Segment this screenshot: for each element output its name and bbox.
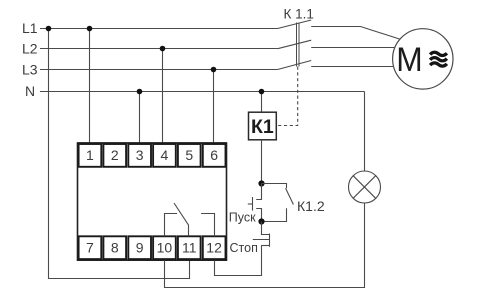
svg-text:К1: К1 bbox=[251, 116, 274, 138]
svg-text:L1: L1 bbox=[22, 20, 38, 36]
wire coil K1 to node A bbox=[261, 140, 263, 184]
contactor K1.1 pole 2 blade bbox=[278, 40, 312, 49]
wire terminal 12 riser inside box bbox=[201, 214, 214, 237]
terminal 6 bbox=[203, 144, 226, 167]
svg-text:N: N bbox=[25, 83, 35, 99]
wire K1.2 branch bottom bbox=[262, 208, 287, 221]
svg-text:4: 4 bbox=[161, 147, 169, 163]
svg-text:К1.2: К1.2 bbox=[297, 198, 325, 214]
svg-text:Стоп: Стоп bbox=[230, 241, 258, 255]
push button Pusk movable bar bbox=[252, 197, 254, 211]
terminal 7 bbox=[79, 236, 102, 259]
wire L1 horizontal bbox=[40, 28, 278, 30]
svg-text:Пуск: Пуск bbox=[229, 210, 256, 224]
terminal 11 bbox=[178, 236, 201, 259]
dashed link to coil K1 bbox=[277, 67, 298, 126]
node A bbox=[258, 180, 264, 186]
node B bbox=[258, 218, 264, 224]
svg-text:L2: L2 bbox=[22, 41, 38, 57]
node N dot 2 bbox=[259, 89, 265, 95]
wire N to coil K1 bbox=[261, 92, 263, 113]
lamp circle bbox=[349, 171, 381, 203]
push button Pusk upper lead bbox=[256, 184, 261, 200]
svg-text:6: 6 bbox=[210, 147, 218, 163]
wire motor phase 3 bbox=[311, 66, 394, 68]
wire motor phase 2 bbox=[311, 47, 394, 49]
terminal 12 bbox=[203, 236, 226, 259]
terminal 2 bbox=[103, 144, 126, 167]
node L1 dot 2 bbox=[87, 26, 93, 32]
motor M circle bbox=[393, 29, 453, 89]
svg-text:L3: L3 bbox=[22, 62, 38, 78]
wire terminal 10 down to lamp return bbox=[165, 203, 365, 288]
wire L3 to terminal 6 bbox=[213, 70, 215, 144]
wire K1.2 branch top bbox=[262, 184, 287, 189]
wire N to lamp bbox=[364, 92, 366, 172]
wire L1 to terminal 1 bbox=[89, 29, 91, 144]
wire motor phase 1 bbox=[311, 27, 399, 40]
terminal 9 bbox=[128, 236, 151, 259]
svg-text:11: 11 bbox=[182, 240, 197, 256]
node L2 dot bbox=[160, 46, 166, 52]
svg-text:M: M bbox=[396, 41, 422, 80]
contactor K1.1 pole 3 blade bbox=[278, 61, 312, 70]
wire L2 to terminal 4 bbox=[162, 49, 164, 144]
terminal 4 bbox=[153, 144, 176, 167]
svg-text:8: 8 bbox=[111, 240, 119, 256]
contact K1.2 blade bbox=[286, 188, 294, 204]
node N dot 1 bbox=[137, 89, 143, 95]
relay contact blade (common terminal 11) bbox=[174, 203, 189, 236]
push button Stop actuator rod bbox=[253, 239, 270, 241]
contactor K1.1 pole 1 blade bbox=[278, 20, 312, 29]
node L1 dot 1 bbox=[46, 26, 52, 32]
svg-text:К 1.1: К 1.1 bbox=[284, 7, 314, 22]
svg-text:1: 1 bbox=[86, 147, 94, 163]
terminal 1 bbox=[79, 144, 102, 167]
wire L3 horizontal bbox=[40, 69, 278, 71]
push button Stop lower lead bbox=[262, 245, 270, 247]
terminal 8 bbox=[103, 236, 126, 259]
terminal 5 bbox=[178, 144, 201, 167]
svg-text:5: 5 bbox=[185, 147, 193, 163]
wire terminal 10 riser inside box bbox=[165, 214, 178, 237]
terminal 3 bbox=[128, 144, 151, 167]
svg-text:7: 7 bbox=[86, 240, 94, 256]
push button Pusk actuator rod bbox=[248, 203, 253, 205]
lamp cross bbox=[353, 176, 376, 199]
node L3 dot bbox=[211, 67, 217, 73]
svg-text:3: 3 bbox=[136, 147, 144, 163]
wire L1 left riser down bbox=[49, 29, 190, 279]
svg-text:12: 12 bbox=[206, 240, 222, 256]
coil K1 box bbox=[249, 112, 277, 140]
wire N to terminal 3 bbox=[139, 92, 141, 144]
wire terminal 12 down to Stop button bbox=[215, 245, 262, 275]
motor AC waves bbox=[430, 52, 447, 66]
push button Stop upper lead bbox=[262, 222, 270, 235]
wire N horizontal bbox=[40, 91, 365, 93]
push button Stop movable bar bbox=[269, 234, 271, 247]
svg-text:2: 2 bbox=[111, 147, 119, 163]
svg-text:10: 10 bbox=[157, 240, 173, 256]
relay box outline bbox=[78, 143, 227, 260]
contactor linkage bars bbox=[296, 23, 298, 67]
svg-text:9: 9 bbox=[136, 240, 144, 256]
terminal 10 bbox=[153, 236, 176, 259]
wire L2 horizontal bbox=[40, 48, 278, 50]
push button Pusk lower lead bbox=[256, 209, 261, 222]
